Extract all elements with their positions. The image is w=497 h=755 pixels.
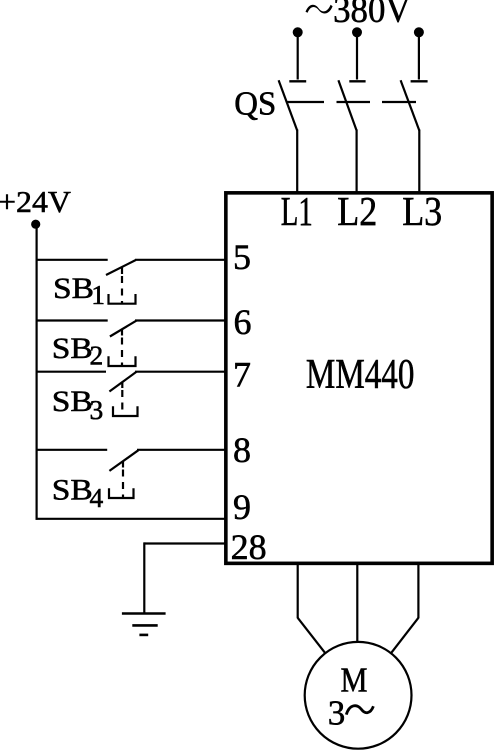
svg-text:L3: L3 bbox=[402, 188, 442, 234]
wire bus to SB2 bbox=[36, 319, 108, 321]
svg-text:L1: L1 bbox=[281, 188, 313, 234]
label 3~ bbox=[328, 694, 374, 733]
motor M circle bbox=[305, 642, 412, 749]
wire motor lead W diagonal bbox=[391, 618, 418, 653]
wire pole 1 to L1 bbox=[296, 130, 298, 193]
svg-text:MM440: MM440 bbox=[306, 351, 415, 398]
wire +24V bus bbox=[35, 224, 37, 520]
pushbutton SB4 actuator bbox=[109, 488, 134, 498]
wire motor lead V bbox=[356, 564, 358, 643]
switch QS pole 3 fixed contact bbox=[411, 80, 428, 82]
svg-text:QS: QS bbox=[234, 86, 276, 123]
pushbutton SB3 blade bbox=[109, 372, 136, 392]
terminal dot phase A bbox=[293, 27, 303, 37]
svg-text:4: 4 bbox=[90, 482, 104, 513]
pushbutton SB1 blade bbox=[106, 260, 136, 275]
pushbutton SB2 actuator bbox=[109, 356, 136, 366]
wire motor lead W drop bbox=[417, 564, 419, 618]
wire SB4 to pin 8 bbox=[137, 449, 225, 451]
wire bus to SB3 bbox=[36, 371, 107, 373]
svg-text:SB: SB bbox=[52, 474, 93, 507]
wire phase B drop bbox=[356, 32, 358, 80]
svg-text:3: 3 bbox=[328, 694, 346, 733]
label SB3 bbox=[52, 385, 103, 425]
label SB4 bbox=[52, 474, 104, 514]
pushbutton SB1 link tick bbox=[121, 268, 123, 275]
wire SB1 to pin 5 bbox=[135, 259, 225, 261]
pushbutton SB2 link tick bbox=[121, 329, 123, 336]
svg-text:1: 1 bbox=[91, 279, 105, 310]
wire phase A drop bbox=[297, 32, 299, 80]
svg-text:2: 2 bbox=[90, 340, 104, 371]
svg-text:7: 7 bbox=[233, 354, 251, 394]
switch QS pole 1 fixed contact bbox=[289, 80, 306, 82]
ground bar 3 bbox=[139, 634, 148, 637]
pushbutton SB2 link dashed bbox=[121, 338, 123, 366]
ground bar 2 bbox=[132, 624, 157, 627]
svg-text:SB: SB bbox=[53, 272, 94, 305]
wire SB2 to pin 6 bbox=[135, 319, 225, 321]
label ~380V supply bbox=[306, 0, 411, 31]
pushbutton SB4 link tick bbox=[122, 461, 124, 468]
wire pole 2 to L2 bbox=[356, 130, 358, 193]
svg-text:8: 8 bbox=[233, 430, 251, 470]
svg-text:+24V: +24V bbox=[0, 184, 72, 219]
svg-text:L2: L2 bbox=[337, 188, 377, 234]
terminal dot phase C bbox=[414, 27, 424, 37]
pushbutton SB3 actuator bbox=[113, 406, 138, 416]
switch QS linkage dashed segment 1 bbox=[287, 101, 324, 103]
label SB1 bbox=[53, 272, 105, 310]
inverter box MM440 bbox=[226, 193, 492, 563]
svg-text:28: 28 bbox=[231, 527, 267, 567]
wire pin 28 drop bbox=[143, 542, 145, 613]
wire bus to pin 9 bbox=[36, 518, 226, 520]
svg-text:6: 6 bbox=[234, 302, 252, 342]
wire bus to SB4 bbox=[36, 449, 108, 451]
pushbutton SB4 link dashed bbox=[122, 470, 124, 498]
switch QS pole 2 fixed contact bbox=[349, 80, 365, 82]
switch QS pole 3 blade bbox=[401, 80, 420, 130]
wire motor lead U diagonal bbox=[298, 618, 325, 653]
wire SB3 to pin 7 bbox=[135, 371, 225, 373]
pushbutton SB4 blade bbox=[109, 450, 138, 471]
svg-text:380V: 380V bbox=[333, 0, 411, 31]
ground bar 1 bbox=[122, 612, 166, 615]
switch QS linkage dashed segment 3 bbox=[382, 101, 416, 103]
svg-text:5: 5 bbox=[233, 237, 251, 277]
pushbutton SB3 link dashed bbox=[121, 390, 123, 416]
pushbutton SB1 actuator bbox=[109, 294, 136, 304]
label SB2 bbox=[52, 332, 103, 371]
wire motor lead U drop bbox=[297, 564, 299, 618]
wire pin 28 horizontal bbox=[144, 542, 225, 544]
switch QS linkage dashed segment 2 bbox=[337, 101, 371, 103]
svg-text:9: 9 bbox=[233, 487, 251, 527]
pushbutton SB3 link tick bbox=[121, 382, 123, 389]
pushbutton SB1 link dashed bbox=[121, 276, 123, 303]
wire phase C drop bbox=[418, 32, 420, 80]
svg-text:3: 3 bbox=[90, 394, 104, 425]
pushbutton SB2 blade bbox=[110, 321, 136, 337]
switch QS pole 2 blade bbox=[338, 80, 356, 130]
terminal dot phase B bbox=[352, 27, 362, 37]
switch QS pole 1 blade bbox=[279, 80, 298, 130]
node +24V dot bbox=[31, 220, 40, 229]
wire bus to SB1 bbox=[36, 259, 108, 261]
svg-text:SB: SB bbox=[52, 332, 93, 365]
svg-text:SB: SB bbox=[52, 385, 93, 418]
wire pole 3 to L3 bbox=[418, 130, 420, 193]
